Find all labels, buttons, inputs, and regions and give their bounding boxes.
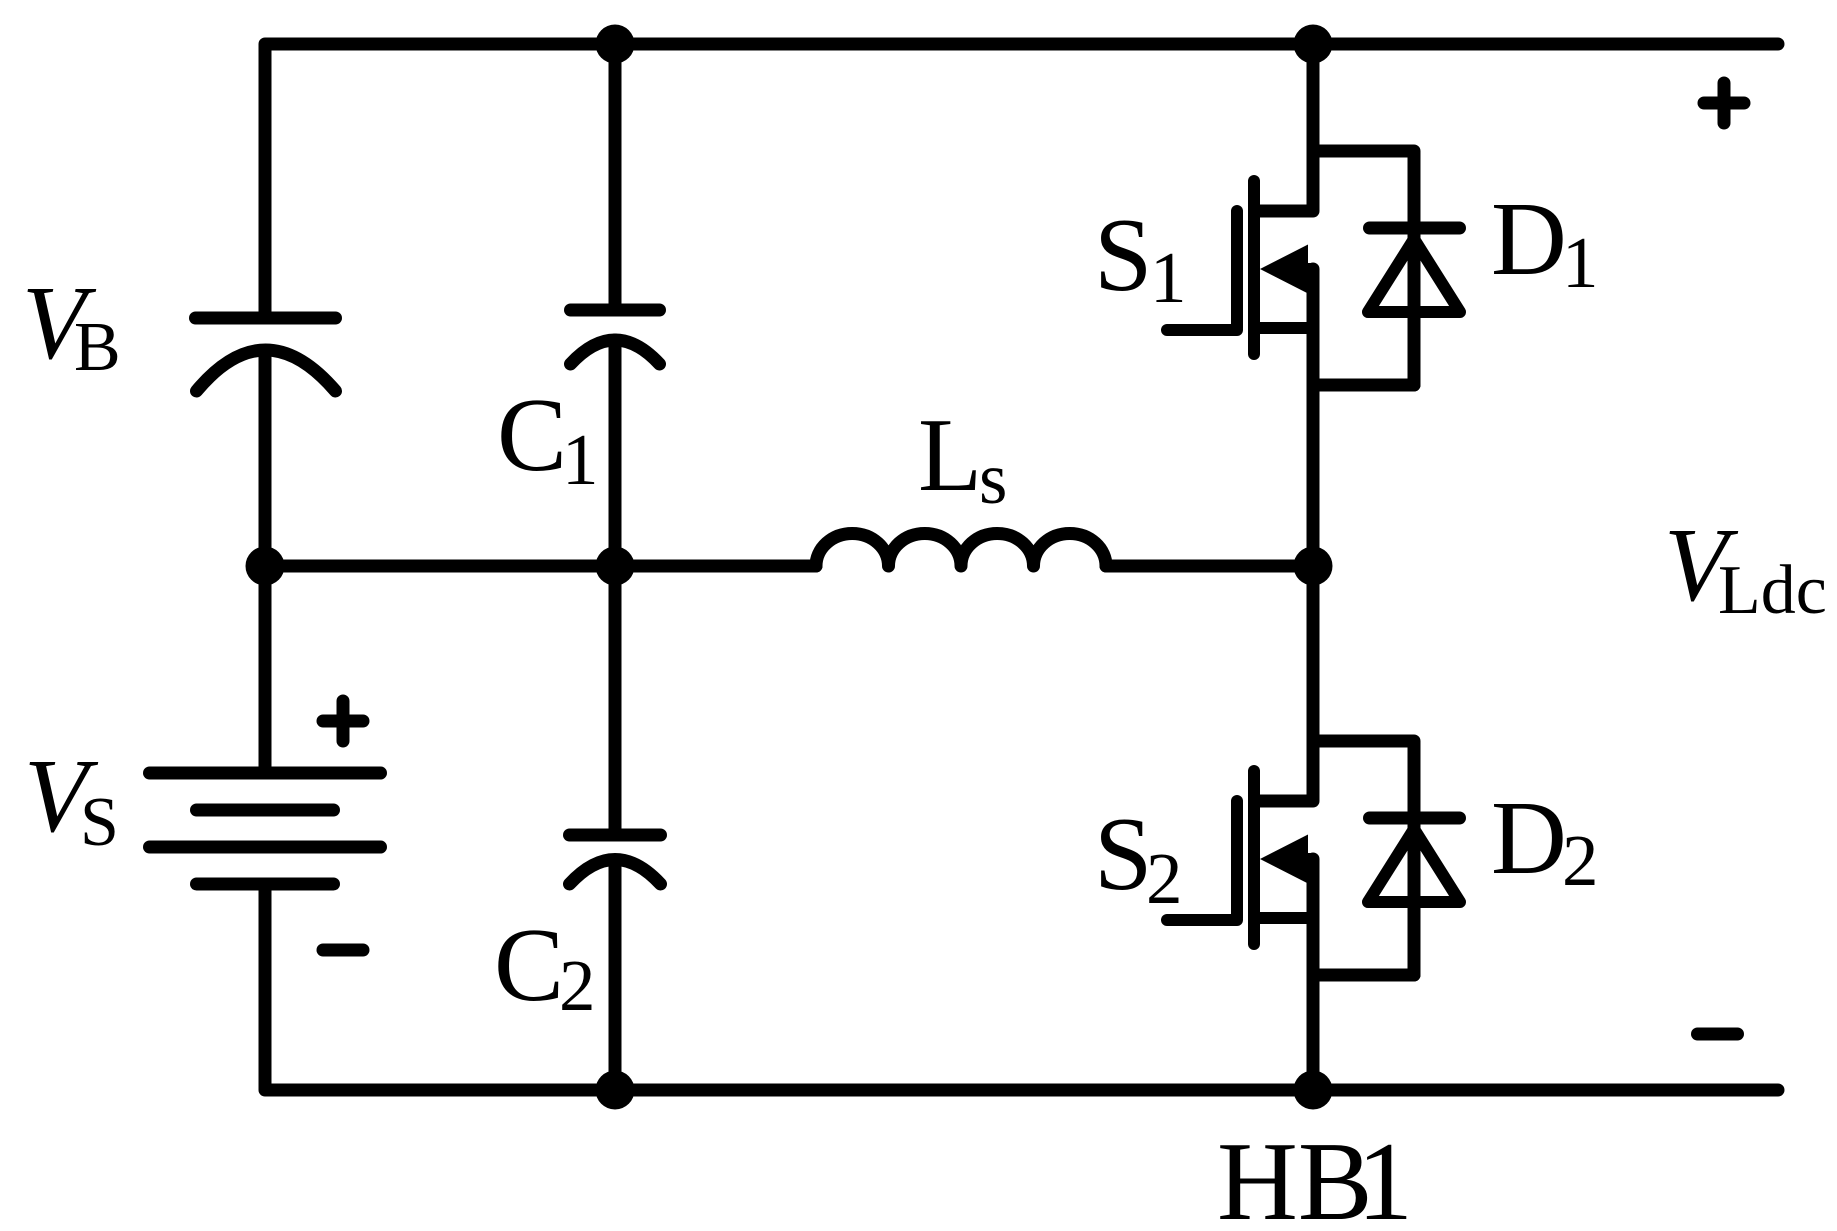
junction node top C1	[596, 25, 635, 64]
svg-text:B: B	[74, 309, 121, 386]
wire middle rail right	[1106, 560, 1313, 573]
capacitor C2 curved plate	[570, 860, 661, 885]
transistor S1 channel bar	[1248, 181, 1260, 354]
svg-text:C: C	[494, 906, 564, 1023]
transistor S1 body arrow	[1260, 245, 1308, 294]
transistor S1 gate bar	[1231, 211, 1243, 328]
battery VS plate long 3	[150, 841, 381, 854]
svg-text:L: L	[918, 396, 982, 513]
inductor Ls	[816, 534, 1106, 567]
svg-text:Ldc: Ldc	[1718, 552, 1827, 629]
wire C1 top lead	[609, 44, 622, 310]
junction node mid C1	[596, 547, 635, 586]
diode D1 cathode bar	[1370, 222, 1460, 235]
transistor S1 arrow tail wire	[1303, 263, 1313, 275]
wire C2 top lead	[609, 566, 622, 831]
svg-text:s: s	[979, 438, 1007, 519]
svg-text:S: S	[80, 784, 119, 861]
wire C2 bottom lead	[609, 860, 622, 1090]
transistor S1 source lead	[1260, 322, 1313, 334]
svg-text:S: S	[1094, 196, 1152, 313]
svg-text:D: D	[1491, 779, 1567, 896]
svg-text:S: S	[1094, 795, 1152, 912]
diode D1 bottom branch wire	[1313, 379, 1414, 392]
svg-text:2: 2	[1562, 820, 1599, 901]
capacitor C1 top plate	[571, 304, 660, 317]
junction node mid left	[246, 547, 285, 586]
battery VS top lead wire	[259, 566, 272, 769]
capacitor C2 top plate	[570, 829, 661, 842]
wire VB to node M1	[259, 352, 272, 566]
svg-text:D: D	[1491, 180, 1567, 297]
wire S1 source vertical to node	[1307, 269, 1320, 566]
capacitor C1 curved plate	[571, 340, 660, 364]
wire S1 drain vertical	[1260, 44, 1313, 211]
svg-text:1: 1	[562, 419, 599, 500]
wire middle rail left	[265, 560, 816, 573]
junction node bottom HB	[1294, 1071, 1333, 1110]
transistor S2 source lead	[1260, 912, 1313, 924]
wire S2 source vertical to bottom	[1307, 859, 1320, 1090]
wire bottom rail	[265, 884, 1778, 1090]
diode D1 top branch wire	[1313, 151, 1414, 385]
battery VS plate long 1	[150, 767, 381, 780]
diode D2 top branch wire	[1313, 741, 1414, 975]
svg-text:HB: HB	[1217, 1120, 1373, 1231]
battery plus sign	[323, 701, 363, 741]
diode D2 cathode bar	[1370, 812, 1460, 825]
diode D2 triangle	[1368, 829, 1460, 902]
svg-text:2: 2	[559, 945, 596, 1026]
battery VS plate short 4	[197, 878, 334, 891]
battery minus sign	[323, 944, 363, 957]
plus sign output	[1704, 83, 1744, 123]
transistor S2 arrow tail wire	[1303, 853, 1313, 865]
diode D1 triangle	[1368, 239, 1460, 312]
transistor S1 gate lead	[1167, 324, 1237, 336]
junction node top HB	[1294, 25, 1333, 64]
capacitor VB curved plate	[197, 350, 336, 391]
svg-text:1: 1	[1357, 1120, 1413, 1231]
diode D2 bottom branch wire	[1313, 969, 1414, 982]
junction node bottom C2	[596, 1071, 635, 1110]
junction node mid HB	[1294, 547, 1333, 586]
capacitor VB top plate	[196, 312, 336, 325]
transistor S2 body arrow	[1260, 835, 1308, 884]
transistor S2 channel bar	[1248, 771, 1260, 944]
svg-text:1: 1	[1562, 222, 1599, 303]
wire S2 drain vertical	[1260, 566, 1313, 801]
minus sign output	[1698, 1028, 1738, 1041]
svg-text:2: 2	[1146, 838, 1183, 919]
svg-text:C: C	[497, 376, 567, 493]
battery VS plate short 2	[197, 804, 334, 817]
wire C1 to node M2	[609, 340, 622, 566]
transistor S2 gate lead	[1167, 914, 1237, 926]
wire top rail	[265, 44, 1778, 312]
transistor S2 gate bar	[1231, 801, 1243, 918]
svg-text:1: 1	[1150, 237, 1187, 318]
